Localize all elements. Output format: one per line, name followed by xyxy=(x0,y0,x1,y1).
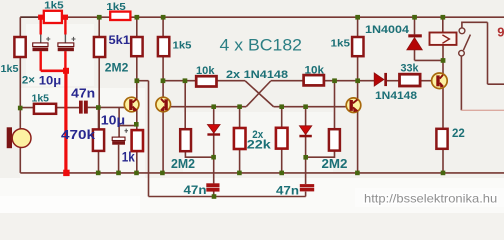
svg-text:http://bsselektronika.hu: http://bsselektronika.hu xyxy=(364,191,497,205)
wire 10u cap riser xyxy=(118,107,120,137)
transistor T4 BC182 xyxy=(432,73,448,89)
resistor R3 1k5 (left vertical) xyxy=(14,37,25,57)
diode D3 1N4148 (horizontal, right) xyxy=(374,73,387,86)
svg-text:9: 9 xyxy=(497,24,504,39)
diode D4 1N4004 (up, relay clamp) xyxy=(407,34,423,50)
resistor R6 1k5 (T2 collector) xyxy=(158,37,169,56)
wire 33k to T4 base xyxy=(421,80,432,82)
wire 22 resistor bottom to rail xyxy=(442,149,444,173)
red highlighted path xyxy=(41,17,66,173)
wire 10k b to diode row to 33k to T4 base xyxy=(324,80,375,82)
wire 22k a bottom to rail xyxy=(239,149,241,173)
junction dot bottom rail x281 xyxy=(279,171,284,176)
svg-text:1N4148: 1N4148 xyxy=(375,90,417,102)
junction dot T3 collector y81 xyxy=(355,78,360,83)
wire 22k b column xyxy=(281,107,283,128)
wire mic row from left column to 47n cap xyxy=(20,107,79,109)
wire top supply rail xyxy=(20,16,504,18)
wire 47n a top stub from D1 bottom node xyxy=(213,157,215,183)
svg-text:1k: 1k xyxy=(122,149,135,164)
wire 22k a column xyxy=(239,107,241,128)
junction red square node B (rail x65.8) xyxy=(63,15,68,20)
svg-text:1k5: 1k5 xyxy=(331,38,351,50)
junction dot D1 bottom y157 xyxy=(211,155,216,160)
junction red square node D (bottom rail x66) xyxy=(63,170,69,176)
svg-text:22k: 22k xyxy=(247,138,271,152)
svg-text:2M2: 2M2 xyxy=(171,157,195,171)
wire collector row T2 to 10k a xyxy=(163,80,197,82)
wire 470k bottom to rail xyxy=(98,151,100,173)
svg-text:47n: 47n xyxy=(276,184,299,198)
wire base row left (T2 base) xyxy=(167,106,247,108)
junction dot relay/T4/diode y60.4 xyxy=(441,58,446,63)
resistor R7 1k5 (T3 collector) xyxy=(352,37,363,56)
wire left column: rail to mic to bottom rail xyxy=(19,17,21,173)
wire D4 to relay/T4 junction row xyxy=(415,59,444,61)
wire red horizontal join y70.8 xyxy=(41,70,66,73)
wire 47n b bottom stub xyxy=(305,192,307,197)
svg-text:2x 1N4148: 2x 1N4148 xyxy=(226,69,288,81)
wire 5k1 column xyxy=(98,17,100,128)
wire red main vertical to bottom rail xyxy=(64,71,67,173)
junction dot D2 bottom y157 xyxy=(303,155,308,160)
junction dot rail x414 xyxy=(412,15,417,20)
wire top-left dark segment xyxy=(20,16,38,18)
svg-text:1k5: 1k5 xyxy=(44,1,64,12)
diode D1 1N4148 (down, between 22k a) xyxy=(207,125,220,136)
wire diode D1 column xyxy=(213,107,215,158)
transistor T2 BC182 (mirrored) xyxy=(156,97,171,112)
wire diagonal cross B xyxy=(246,81,270,107)
wire diode D3 to 33k xyxy=(387,80,401,82)
resistor R18 22 xyxy=(436,129,447,149)
junction dot rail x99 xyxy=(97,15,102,20)
wire 10k a to diagonal start xyxy=(216,80,245,82)
svg-text:10μ: 10μ xyxy=(101,112,125,127)
svg-text:47n: 47n xyxy=(184,183,207,197)
junction dot base row D1 xyxy=(211,104,216,109)
junction dot 2M2 a top y81 xyxy=(183,78,188,83)
switch S1 pivot circle xyxy=(459,50,465,56)
resistor R5 1k5 (T1 collector) xyxy=(131,37,142,56)
junction dot bottom rail x118 xyxy=(116,171,121,176)
wire jog from T1 collector junction to long drop xyxy=(137,80,149,82)
wire relay bottom pin through T4 to 22 resistor xyxy=(442,45,444,128)
junction dot T1 collector y81 xyxy=(135,78,140,83)
junction dot rail x443 xyxy=(441,15,446,20)
junction dot 470k top x98 xyxy=(96,105,101,110)
wire diagonal B to 10k b xyxy=(271,80,304,82)
wire 47n cap to T1 base xyxy=(88,106,130,108)
svg-text:1k5: 1k5 xyxy=(173,40,192,52)
wire red riser cap C1 top xyxy=(40,17,42,34)
svg-text:22: 22 xyxy=(452,126,465,140)
wire 2M2 b bottom hook xyxy=(306,151,335,158)
wire 2M2 b top column xyxy=(334,81,336,130)
svg-text:4 x BC182: 4 x BC182 xyxy=(220,36,303,55)
wire diagonal cross A xyxy=(245,81,273,107)
svg-text:1k5: 1k5 xyxy=(1,63,19,75)
resistor R17 2M2 b xyxy=(329,129,340,150)
wire long drop x=148.5 to lower loop xyxy=(148,81,150,197)
resistor R4 5k1 xyxy=(94,37,105,57)
wire diode D2 column through 47n b xyxy=(305,107,307,184)
junction dot rail x357 xyxy=(355,15,360,20)
diode D2 1N4148 (down) xyxy=(299,126,311,138)
capacitor C4 10u electrolytic (T1 emitter) xyxy=(112,129,128,145)
capacitor C5 47n a (bottom) xyxy=(206,183,219,191)
svg-text:1k5: 1k5 xyxy=(106,2,126,13)
wire base row right (T3 base) xyxy=(274,106,351,108)
svg-text:47n: 47n xyxy=(71,87,95,101)
wire gray lead cap C1 xyxy=(40,35,42,44)
capacitor C1 10u electrolytic (left) xyxy=(33,37,51,51)
svg-text:2M2: 2M2 xyxy=(105,61,129,75)
wire T2 collector/emitter column xyxy=(162,17,164,173)
svg-text:470k: 470k xyxy=(61,127,96,142)
svg-text:33k: 33k xyxy=(401,63,420,75)
resistor R13 1k xyxy=(132,130,143,151)
wire 470k top column xyxy=(98,107,100,129)
transistor T3 BC182 xyxy=(346,98,361,113)
junction dot base row 22k b xyxy=(279,104,284,109)
svg-text:2M2: 2M2 xyxy=(322,157,348,171)
svg-text:5k1: 5k1 xyxy=(109,33,131,47)
resistor R14 2M2 a xyxy=(180,129,191,151)
junction dot rail x163 xyxy=(161,15,166,20)
junction red square node C (x66 y70.8) xyxy=(63,68,69,74)
svg-text:1k5: 1k5 xyxy=(32,93,50,105)
wire faint exit right at y110 xyxy=(461,109,504,111)
wire relay top pin xyxy=(442,17,444,32)
wire 22k b bottom to rail xyxy=(281,149,283,173)
junction dot bottom rail x443 xyxy=(441,171,446,176)
svg-text:2×: 2× xyxy=(22,75,35,87)
wire switch pivot drop xyxy=(460,56,462,110)
junction dot bottom rail x239 xyxy=(237,171,242,176)
wire gray lead cap C2 xyxy=(64,35,66,44)
capacitor C3 47n (mic coupling, vertical plates) xyxy=(79,101,88,114)
resistor R1 1k5 (top left, highlighted red) xyxy=(44,11,62,23)
wire switch blade xyxy=(463,35,470,51)
capacitor C6 47n b (bottom) xyxy=(300,184,314,191)
relay K1 coil xyxy=(430,33,457,45)
wire 2M2 a top column xyxy=(184,81,186,130)
junction red square node A (rail x40.7) xyxy=(38,15,43,20)
resistor R2 1k5 (top, highlighted red) xyxy=(110,12,130,20)
resistor R11 33k (horizontal) xyxy=(400,74,421,86)
wire 1k resistor to bottom rail xyxy=(136,152,138,173)
resistor R8 1k5 (horizontal, mic row) xyxy=(34,104,56,114)
junction dot mic row x20 xyxy=(18,106,23,111)
microphone MIC xyxy=(7,127,31,148)
wire 2M2 a bottom hook xyxy=(185,151,213,157)
svg-text:10k: 10k xyxy=(196,65,215,77)
transistor T1 BC182 xyxy=(124,97,139,112)
capacitor C2 10u electrolytic xyxy=(58,37,76,51)
wire red riser cap C2 top xyxy=(64,17,66,34)
wire exit right at y84 xyxy=(488,83,504,85)
wire red cap C1 bottom drop xyxy=(40,51,42,71)
wire T1 collector column xyxy=(136,17,138,130)
wire bottom ground rail xyxy=(20,172,504,174)
resistor R10 10k b (horizontal) xyxy=(304,75,324,85)
resistor R15 22k a xyxy=(234,128,246,149)
wire 47n a bottom stub xyxy=(213,191,215,196)
junction dot bottom rail x136 xyxy=(134,171,139,176)
junction dot bottom rail x357 xyxy=(355,171,360,176)
resistor R16 22k b xyxy=(276,128,288,149)
junction dot bottom rail x162 xyxy=(160,171,165,176)
junction dot T1 emitter x136 y124 xyxy=(134,122,139,127)
wire T3 collector/emitter column xyxy=(357,17,359,173)
junction dot base row 22k a xyxy=(237,104,242,109)
wire red cap C2 bottom drop xyxy=(64,51,66,71)
svg-text:1N4004: 1N4004 xyxy=(365,24,410,36)
wire 10u cap tap to T1 emitter junction xyxy=(119,125,136,127)
junction dot 2M2 b top y81 xyxy=(332,78,337,83)
junction dot lower loop x214 xyxy=(212,194,217,199)
svg-text:10k: 10k xyxy=(305,65,325,77)
wire diode D4 top stub xyxy=(414,17,416,34)
wire lower loop rail xyxy=(149,196,306,198)
wire switch loop right drop xyxy=(487,22,489,84)
junction dot bottom rail x98 xyxy=(96,171,101,176)
junction dot base row D2 xyxy=(303,104,308,109)
wire switch contact riser and top loop xyxy=(462,22,488,28)
junction dot rail x137 xyxy=(135,15,140,20)
switch S1 contact circle xyxy=(459,28,465,34)
junction dot T2 collector y81 xyxy=(161,78,166,83)
resistor R9 10k a (horizontal) xyxy=(196,76,216,86)
wire diode D4 bottom stub xyxy=(414,50,416,61)
resistor R12 470k xyxy=(93,129,104,151)
wire 10u cap bottom to rail xyxy=(118,145,120,173)
svg-text:10μ: 10μ xyxy=(39,74,62,88)
